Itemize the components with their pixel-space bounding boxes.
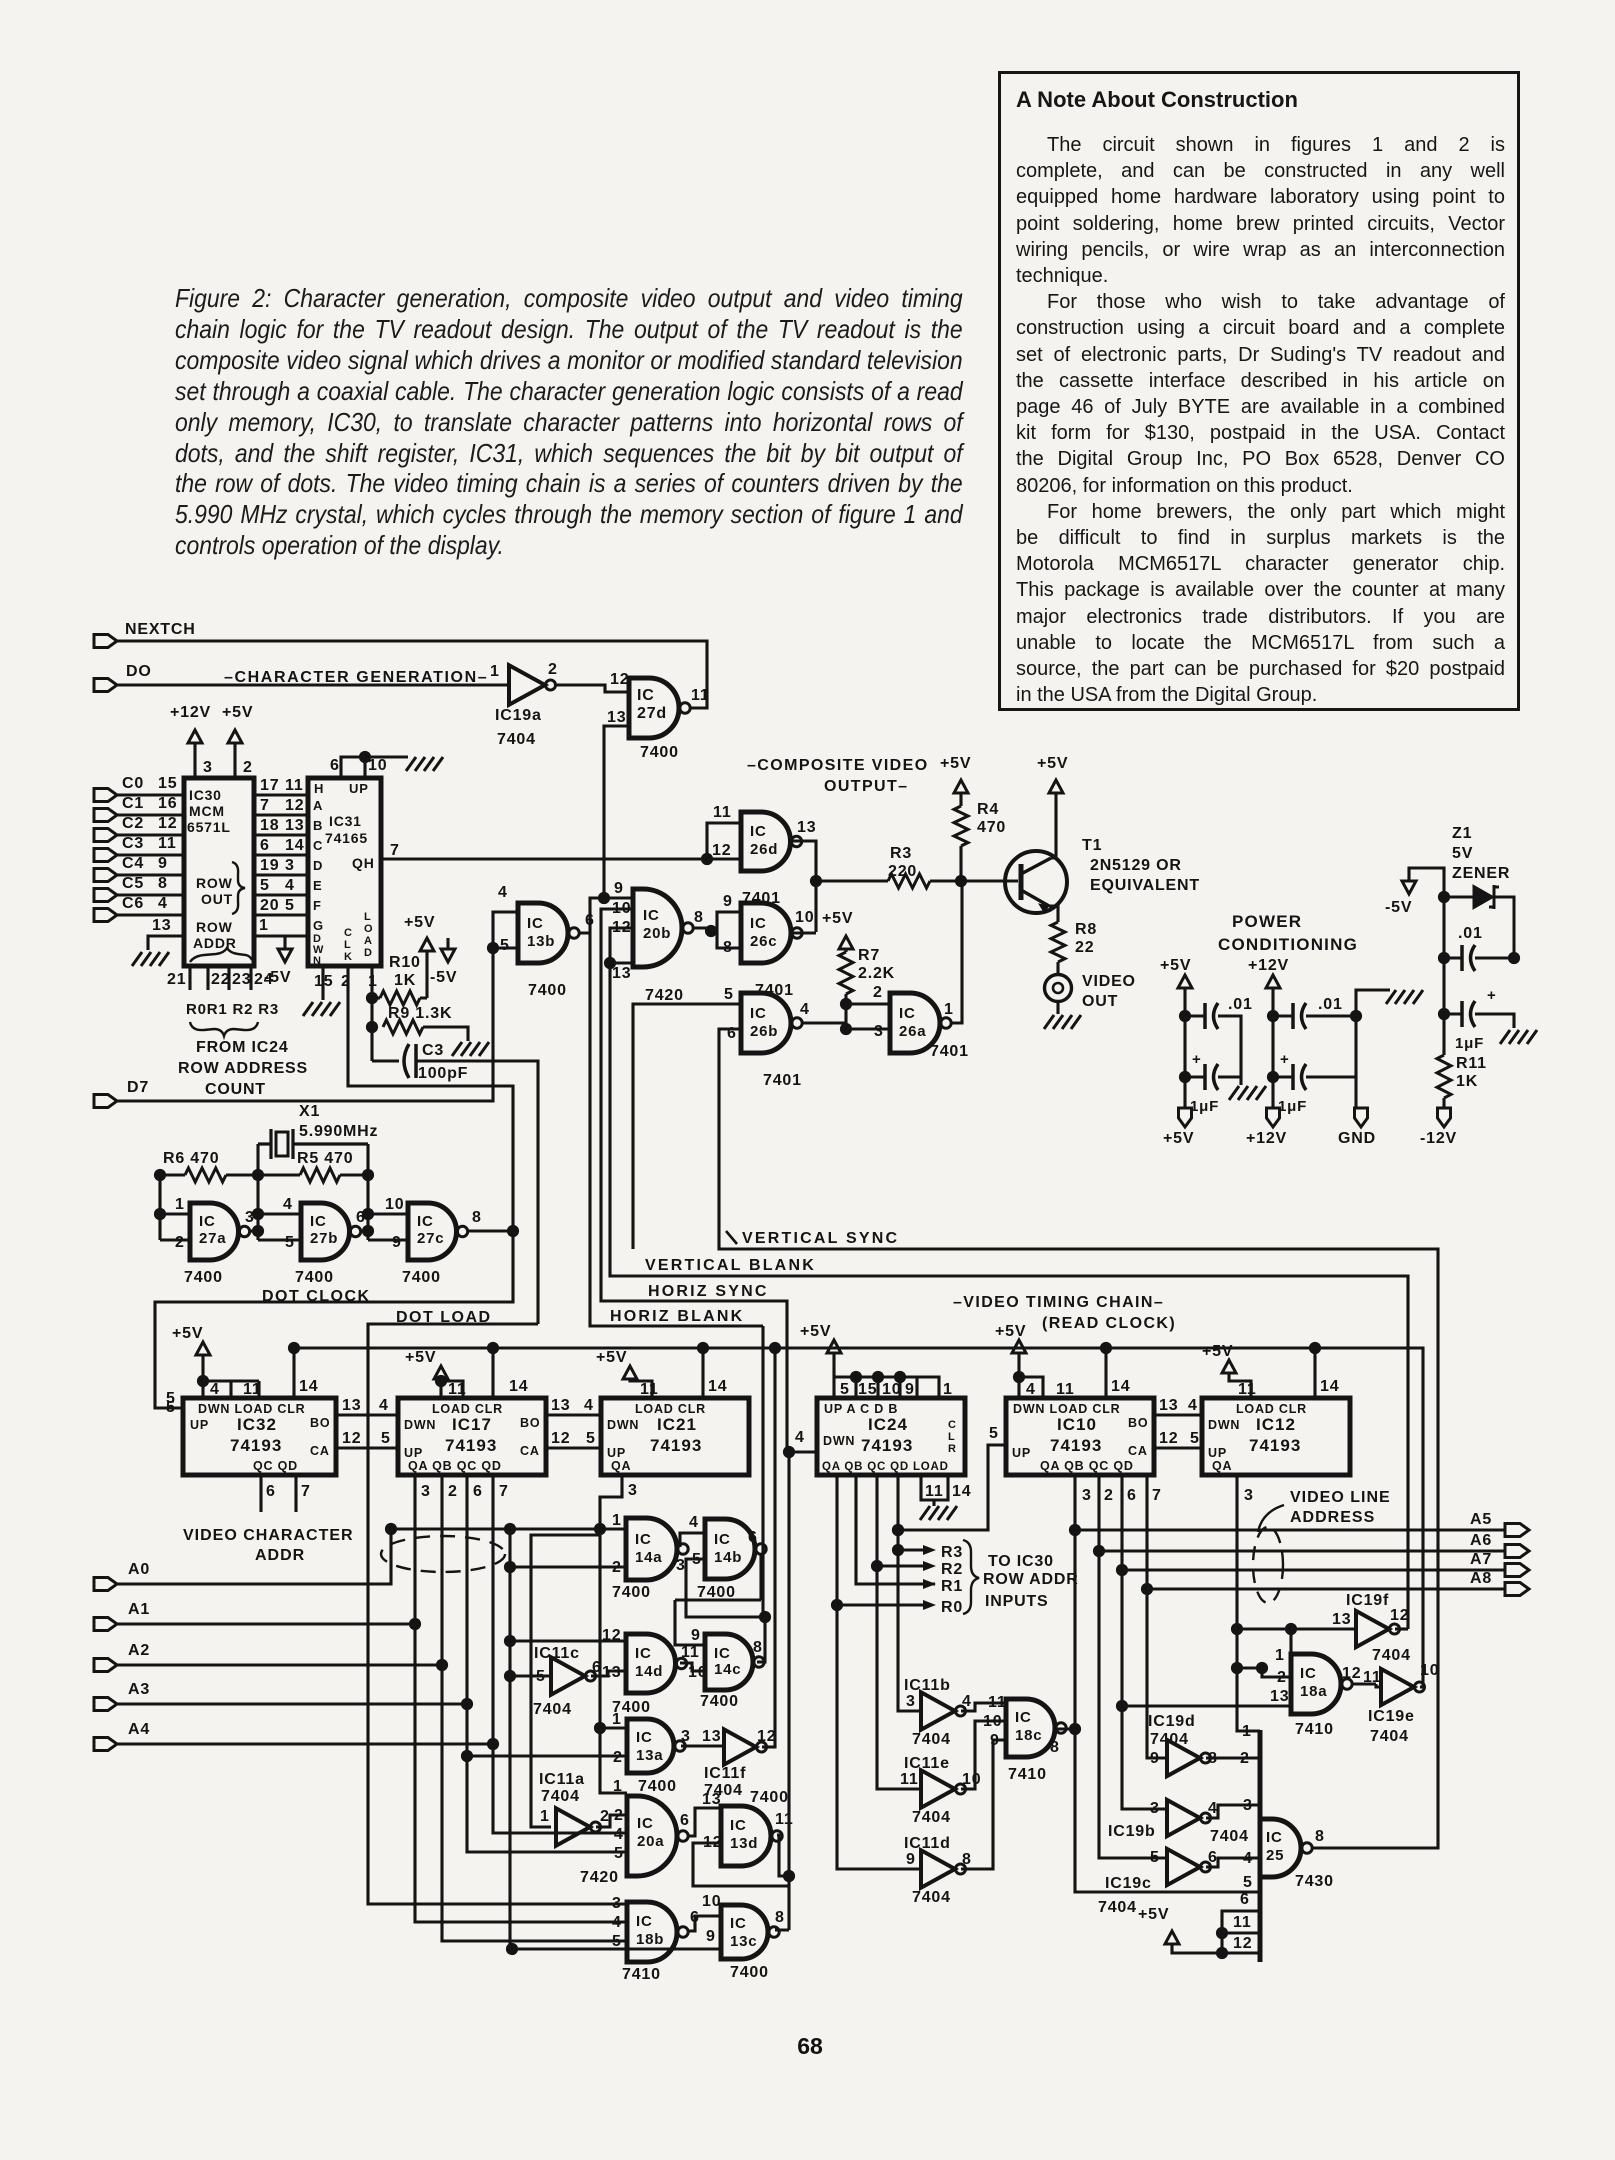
wire T1 collector [1051,793,1056,858]
IC U12 74193 [1202,1398,1350,1475]
ground video out [1044,1015,1081,1029]
junction IC20b pin9 [598,892,610,904]
wire ic10 QB rail [1099,1475,1167,1858]
svg-text:4: 4 [584,1397,594,1414]
junction IC20b pin13 [604,957,616,969]
svg-text:11: 11 [1363,1669,1382,1686]
wire IC30 bottom pin 23 [227,966,230,990]
svg-text:IC: IC [1015,1709,1032,1726]
brace to ic30 row addr [963,1540,979,1614]
svg-text:ADDR: ADDR [255,1547,305,1564]
wire 11d out to 18c pin9 [961,1740,1006,1869]
svg-text:13: 13 [797,819,816,836]
junction +5v ic10 [1013,1371,1025,1383]
junction R3 [892,1544,904,1556]
wire ic17 ca link [546,1446,601,1449]
svg-text:14: 14 [1111,1378,1130,1395]
wire 11c input feed [510,1674,551,1677]
svg-text:C1: C1 [122,795,144,812]
svg-text:C: C [313,838,323,853]
svg-text:4: 4 [210,1381,220,1398]
svg-text:ROW ADDR: ROW ADDR [983,1571,1079,1588]
svg-text:C2: C2 [122,815,144,832]
svg-text:8: 8 [1050,1739,1060,1756]
junction pc2b [1267,1071,1279,1083]
svg-text:QA: QA [611,1459,631,1473]
wire R8 to jack [1056,962,1059,975]
svg-text:R0: R0 [941,1599,963,1616]
power arrow +5V IC32 [196,1342,210,1355]
svg-text:+5V: +5V [940,755,971,772]
svg-text:2: 2 [243,759,253,776]
wire 14a pin2 feed [510,1565,626,1568]
nand gate IC26d 7401 [741,812,802,871]
svg-text:H: H [314,781,324,796]
input connector D7 [94,1095,117,1108]
svg-text:IC: IC [750,823,767,840]
wire IC27d pin13 rail to IC20b pin9 [604,726,633,898]
wire jack to ground [1056,1002,1059,1014]
svg-text:IC: IC [199,1213,216,1230]
junction ic24 bus1 [850,1371,862,1383]
svg-text:C6: C6 [122,895,144,912]
svg-text:+5V: +5V [596,1349,627,1366]
svg-text:13: 13 [1270,1688,1289,1705]
resistor R4 470 [954,806,968,846]
wire pc c4 right [1306,1016,1356,1077]
svg-text:C3: C3 [422,1042,444,1059]
svg-text:1: 1 [1242,1723,1252,1740]
wire ic32 pin7 stub [294,1475,297,1512]
wire IC30-IC31 row 2 [254,813,308,816]
svg-text:+5V: +5V [1202,1343,1233,1360]
junction 18a pin1 [1285,1623,1297,1635]
resistor R3 220 [888,874,930,888]
wire pc c2 right [1218,1077,1241,1085]
svg-text:IC: IC [730,1817,747,1834]
junction z4 [1508,952,1520,964]
junction IC26d-26c node [810,875,822,887]
capacitor 1uF zener [1462,1001,1475,1027]
wire pc c3 top [1273,1014,1293,1017]
svg-text:2N5129 OR: 2N5129 OR [1090,857,1182,874]
junction QH-IC26d [701,853,713,865]
svg-text:NEXTCH: NEXTCH [125,621,196,638]
arrowhead R2 [923,1561,936,1571]
svg-text:UP: UP [404,1446,423,1460]
svg-text:IC11e: IC11e [904,1755,950,1772]
wire +12V pc rail [1271,988,1274,1108]
svg-text:14: 14 [708,1378,727,1395]
wire IC26d input bracket [707,823,741,859]
svg-text:4: 4 [800,1001,810,1018]
svg-text:R7: R7 [858,947,880,964]
svg-text:14: 14 [285,837,304,854]
nand gate IC13b 7400 [518,903,579,963]
svg-text:22: 22 [1075,939,1094,956]
svg-text:7401: 7401 [930,1043,969,1060]
svg-text:GND: GND [1338,1130,1376,1147]
svg-text:13c: 13c [730,1933,757,1950]
svg-text:CONDITIONING: CONDITIONING [1218,935,1358,954]
svg-text:100pF: 100pF [418,1065,468,1082]
svg-text:12: 12 [1342,1665,1361,1682]
svg-text:7404: 7404 [1210,1828,1249,1845]
junction 18a pin13 [1116,1700,1128,1712]
power arrow +12V pc [1266,975,1280,988]
wire C3 left lead [372,1059,399,1062]
nand gate IC27a 7400 [190,1203,250,1260]
wire ic21 pin14 clr [701,1348,704,1398]
svg-text:UP: UP [1012,1446,1031,1460]
video out coax jack [1045,975,1072,1002]
svg-text:4: 4 [614,1826,624,1843]
capacitor .01 no2 [1293,1003,1306,1029]
wire IC25 out to vert sync rail [1311,1846,1438,1848]
wire 11e out to 18c pin10 [961,1721,1006,1789]
arrowhead R3 [923,1545,936,1555]
junction qd 1530 [892,1524,904,1536]
input connector A3 [94,1698,117,1711]
junction +5v ic32 [197,1375,209,1387]
wire z cap1 left [1444,956,1462,959]
wire IC30 bottom pin 21 [188,966,191,990]
wire 14d pin12 feed [510,1639,626,1642]
nand gate IC13a 7400 [627,1719,685,1773]
svg-text:+12V: +12V [170,704,211,721]
svg-text:R11: R11 [1456,1055,1487,1072]
wire video char addr line [391,1527,626,1530]
svg-text:IC: IC [750,915,767,932]
svg-text:20b: 20b [643,925,671,942]
IC U24 74193 [817,1398,965,1475]
svg-text:+5V: +5V [1160,957,1191,974]
svg-text:15: 15 [158,775,177,792]
svg-text:K: K [344,951,352,963]
junction R10 node [366,992,378,1004]
svg-text:7420: 7420 [580,1869,619,1886]
vertical sync tick [726,1231,737,1244]
svg-text:3: 3 [628,1482,638,1499]
junction rail510 d [506,1943,518,1955]
power arrow +5V [228,730,242,743]
wire R0 arrow line [837,1603,928,1606]
svg-text:OUT: OUT [201,891,233,907]
wire +5V ic24 bus [834,1353,939,1398]
svg-text:Z1: Z1 [1452,825,1472,842]
svg-text:7: 7 [390,842,400,859]
svg-text:–VIDEO TIMING CHAIN–: –VIDEO TIMING CHAIN– [953,1294,1164,1311]
svg-text:12: 12 [612,919,631,936]
svg-text:+5V: +5V [822,910,853,927]
svg-text:TO IC30: TO IC30 [988,1553,1054,1570]
svg-text:5: 5 [612,1933,622,1950]
svg-text:1: 1 [1275,1647,1285,1664]
wire IC31 top pins to ground [341,757,408,778]
svg-text:+: + [1487,987,1497,1004]
svg-text:2: 2 [548,661,558,678]
svg-text:13: 13 [1159,1397,1178,1414]
wire +5V ic32 stem [203,1355,259,1398]
svg-text:IC19c: IC19c [1105,1875,1152,1892]
ground pc2 [1386,990,1423,1004]
svg-text:9: 9 [906,1851,916,1868]
svg-text:IC: IC [636,1729,653,1746]
svg-text:R5 470: R5 470 [297,1150,353,1167]
wire IC27c out to dot clock rail [469,1229,513,1232]
wire ic10 QC rail [1122,1475,1167,1809]
svg-text:1: 1 [943,1381,953,1398]
ground zener [1500,1030,1537,1044]
svg-text:IC: IC [714,1531,731,1548]
resistor R11 1K [1437,1055,1451,1098]
svg-text:IC11c: IC11c [534,1645,580,1662]
wire ic24 QC rail [877,1475,921,1789]
svg-text:19: 19 [260,857,279,874]
svg-text:-5V: -5V [430,969,457,986]
svg-text:IC: IC [1266,1829,1283,1846]
svg-text:7420: 7420 [645,987,684,1004]
svg-text:3: 3 [676,1557,686,1574]
svg-text:+5V: +5V [1163,1130,1194,1147]
wire z cap2 left [1444,1012,1462,1015]
wire IC19a out to IC27d pin12 [556,685,629,692]
svg-text:IC24: IC24 [868,1415,908,1434]
svg-text:5: 5 [1190,1430,1200,1447]
svg-text:25: 25 [1266,1847,1284,1864]
ground IC31 pin15 [303,1002,340,1016]
svg-text:B: B [313,818,323,833]
svg-text:13d: 13d [730,1835,758,1852]
svg-text:L: L [344,939,351,951]
svg-text:2: 2 [1104,1487,1114,1504]
svg-text:+5V: +5V [222,704,253,721]
wire R11 bottom [1442,1098,1445,1108]
svg-text:74165: 74165 [325,830,368,846]
junction A4 [487,1738,499,1750]
svg-text:6: 6 [748,1529,758,1546]
svg-text:4: 4 [689,1514,699,1531]
svg-text:6: 6 [1127,1487,1137,1504]
svg-text:14b: 14b [714,1549,742,1566]
wire +5V ic17 stem [441,1379,463,1398]
wire ic17 QB rail [442,1475,627,1941]
wire ic17 bo link [546,1413,601,1416]
svg-text:DWN LOAD CLR: DWN LOAD CLR [198,1402,306,1416]
svg-text:12: 12 [1159,1430,1178,1447]
svg-text:10: 10 [612,900,631,917]
nand gate IC14b 7400 [705,1519,766,1579]
svg-text:11: 11 [243,1381,262,1398]
wire +5V ic10 stem [1019,1353,1043,1398]
svg-text:7: 7 [301,1483,311,1500]
svg-text:7404: 7404 [533,1701,572,1718]
wire IC19d out to IC25 pin2 [1206,1756,1260,1759]
svg-text:7400: 7400 [640,744,679,761]
junction z2 [1438,952,1450,964]
power arrow +12V [188,730,202,743]
svg-text:14c: 14c [714,1661,741,1678]
svg-text:5: 5 [500,937,510,954]
svg-text:10: 10 [1420,1662,1439,1679]
svg-text:3: 3 [1243,1797,1253,1814]
svg-text:74193: 74193 [230,1436,282,1455]
inverter IC19a 7404 [509,665,556,705]
wire 11c out to 14d pin13 [591,1671,626,1676]
svg-text:18c: 18c [1015,1727,1042,1744]
svg-text:27a: 27a [199,1230,226,1247]
ground R9 [452,1042,489,1056]
svg-text:G: G [313,918,324,933]
wire ic24 QA rail [837,1475,921,1869]
crystal X1 [258,1129,368,1159]
svg-text:CA: CA [520,1444,540,1458]
svg-text:14d: 14d [635,1663,663,1680]
wire IC13b input bracket [493,912,518,948]
svg-text:7410: 7410 [622,1966,661,1983]
input connector C1 [94,809,117,822]
junction IC27c out [507,1225,519,1237]
junction A7 [1116,1564,1128,1576]
wire R7 top [844,949,847,952]
junction A5 [1069,1524,1081,1536]
svg-text:HORIZ BLANK: HORIZ BLANK [610,1308,744,1325]
nand gate IC27c 7400 [408,1203,468,1260]
svg-text:5: 5 [586,1430,596,1447]
svg-text:HORIZ SYNC: HORIZ SYNC [648,1283,769,1300]
svg-text:ADDR: ADDR [193,935,237,951]
svg-text:11: 11 [925,1483,944,1500]
junction ic25 p12 [1216,1947,1228,1959]
svg-text:+5V: +5V [1138,1906,1169,1923]
wire IC20b pin10 rail horiz sync [601,909,787,1452]
connector GND bottom [1355,1108,1368,1127]
junction clr ic21 [697,1342,709,1354]
junction rail510 a [504,1561,516,1573]
junction 1617 [759,1611,771,1623]
svg-text:9: 9 [723,893,733,910]
power arrow +5V IC25 [1165,1931,1179,1944]
svg-text:IC19a: IC19a [495,707,542,724]
wire T1 emitter [1049,906,1058,922]
wire IC18a out [1352,1684,1381,1687]
svg-text:14: 14 [509,1378,528,1395]
svg-text:UP: UP [607,1446,626,1460]
svg-text:3: 3 [681,1728,691,1745]
svg-text:IC: IC [636,1913,653,1930]
svg-text:QA QB QC QD: QA QB QC QD [1040,1459,1134,1473]
wire crystal left drop [256,1144,259,1240]
wire ic10 bo link [1154,1413,1202,1416]
output connector A5 [1505,1524,1529,1537]
svg-text:5: 5 [840,1381,850,1398]
svg-text:27b: 27b [310,1230,338,1247]
svg-text:DWN: DWN [823,1434,855,1448]
svg-text:2: 2 [1277,1669,1287,1686]
wire DOT LOAD line [368,1324,627,1904]
junction clr ic32 [288,1342,300,1354]
svg-text:+5V: +5V [1037,755,1068,772]
junction pc1b [1179,1071,1191,1083]
svg-text:LOAD CLR: LOAD CLR [432,1402,503,1416]
wire IC18c out to rail [1057,1727,1075,1730]
wire 13d out down [777,1835,789,1876]
svg-text:8: 8 [472,1209,482,1226]
svg-text:7410: 7410 [1295,1721,1334,1738]
svg-text:1: 1 [613,1778,623,1795]
wire D7 feed IC13b rail [117,948,493,1101]
wire IC26c input bracket [717,912,741,948]
svg-text:L: L [948,1431,955,1443]
input connector A1 [94,1618,117,1631]
svg-text:3: 3 [906,1693,916,1710]
svg-text:D: D [364,947,372,959]
junction osc rail 2 [252,1169,264,1181]
inverter IC11e 7404 [921,1770,966,1807]
svg-text:DO: DO [126,663,152,680]
resistor R10 1K [380,991,420,1005]
svg-text:IC19f: IC19f [1346,1592,1389,1609]
svg-text:12: 12 [757,1728,776,1745]
svg-text:2: 2 [613,1749,623,1766]
svg-text:12: 12 [602,1627,621,1644]
wire IC27c pin10 stub [368,1212,408,1215]
resistor R8 22 [1051,922,1065,962]
svg-text:24: 24 [254,971,273,988]
svg-text:15: 15 [858,1381,877,1398]
svg-text:–CHARACTER GENERATION–: –CHARACTER GENERATION– [224,669,488,686]
svg-text:3: 3 [285,857,295,874]
wire A6 line [1099,1549,1505,1552]
svg-text:7404: 7404 [1150,1731,1189,1748]
svg-text:9: 9 [1150,1750,1160,1767]
svg-text:8: 8 [1315,1828,1325,1845]
brace from ic24 [190,1022,258,1036]
video line address pointer curl [1258,1505,1284,1532]
svg-text:R3: R3 [890,845,912,862]
junction rail510 top [504,1523,516,1535]
svg-text:FROM IC24: FROM IC24 [196,1039,289,1056]
inverter IC11c 7404 [551,1657,596,1694]
output connector A7 [1505,1564,1529,1577]
ground IC30 pin13 [132,952,169,966]
wire 13d pin12 feed [693,1843,790,1886]
wire ic12 pin14 clr [1313,1348,1316,1398]
wire pc c1 right [1218,1016,1241,1077]
wire ic24 QB rail [856,1475,935,1584]
wire C1 [117,813,184,816]
svg-text:7404: 7404 [912,1731,951,1748]
svg-text:4: 4 [379,1397,389,1414]
svg-text:(READ CLOCK): (READ CLOCK) [1042,1315,1176,1332]
svg-text:A0: A0 [128,1561,150,1578]
inverter IC19e 7404 [1381,1669,1425,1705]
svg-text:7400: 7400 [730,1964,769,1981]
svg-text:A3: A3 [128,1681,150,1698]
wire 11f out to clr rail [762,1745,775,1748]
IC U30 MCM6571L [184,778,254,966]
svg-text:4: 4 [1026,1381,1036,1398]
svg-text:1: 1 [540,1808,550,1825]
wire IC25 pin6 stub [1222,1911,1260,1953]
wire R3 arrow line [898,1548,928,1551]
svg-text:IC10: IC10 [1057,1415,1097,1434]
wire ic32 pin14 clr [292,1348,295,1398]
wire IC19f input line [1237,1627,1356,1630]
svg-text:O: O [364,923,373,935]
ground IC24 [920,1506,957,1520]
svg-text:470: 470 [977,819,1006,836]
